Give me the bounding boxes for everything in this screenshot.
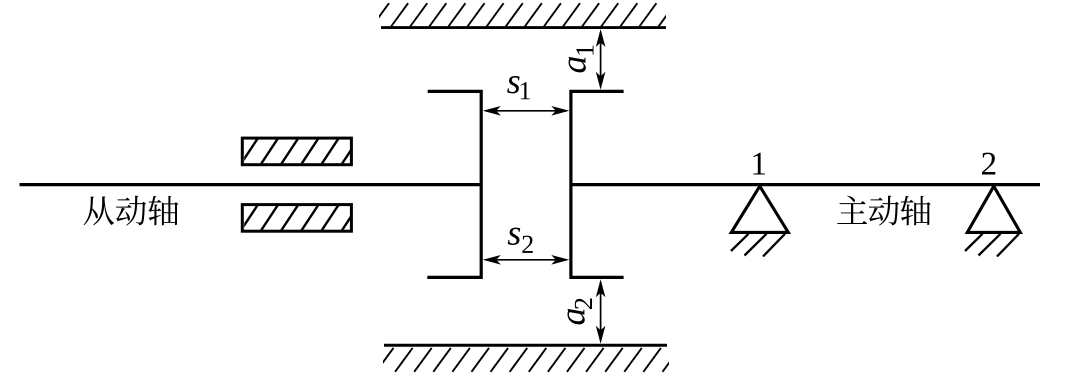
dimension arrow s1	[486, 110, 567, 112]
dimension arrow s2	[486, 259, 567, 261]
label a2	[567, 299, 592, 325]
driving shaft line (right)	[570, 183, 1041, 186]
support 1 hatching	[731, 234, 785, 257]
coupling right flange half	[571, 91, 624, 277]
driven shaft line (left)	[20, 183, 483, 186]
support 1 triangle	[731, 186, 788, 232]
label 主动轴 (driving shaft)	[837, 196, 867, 224]
bearing block lower outline	[242, 205, 351, 232]
support 2 triangle	[967, 186, 1020, 232]
bottom wall hatching	[376, 348, 680, 372]
coupling left flange half	[427, 91, 481, 277]
bearing block upper hatching	[241, 138, 359, 164]
bearing block upper outline	[242, 138, 351, 165]
label s1	[507, 76, 519, 93]
top wall hatching	[372, 3, 676, 26]
label 1 (bearing number)	[753, 153, 765, 175]
label 2 (bearing number)	[982, 153, 995, 175]
label s2	[508, 228, 520, 245]
support 2 hatching	[965, 234, 1019, 257]
label a1	[569, 46, 594, 73]
dimension arrow a1	[600, 32, 602, 87]
dimension arrow a2	[600, 282, 602, 341]
bearing block lower hatching	[241, 205, 359, 231]
top wall surface line	[381, 26, 666, 29]
label 从动轴 (driven shaft)	[84, 196, 115, 225]
bottom wall surface line	[384, 344, 667, 347]
